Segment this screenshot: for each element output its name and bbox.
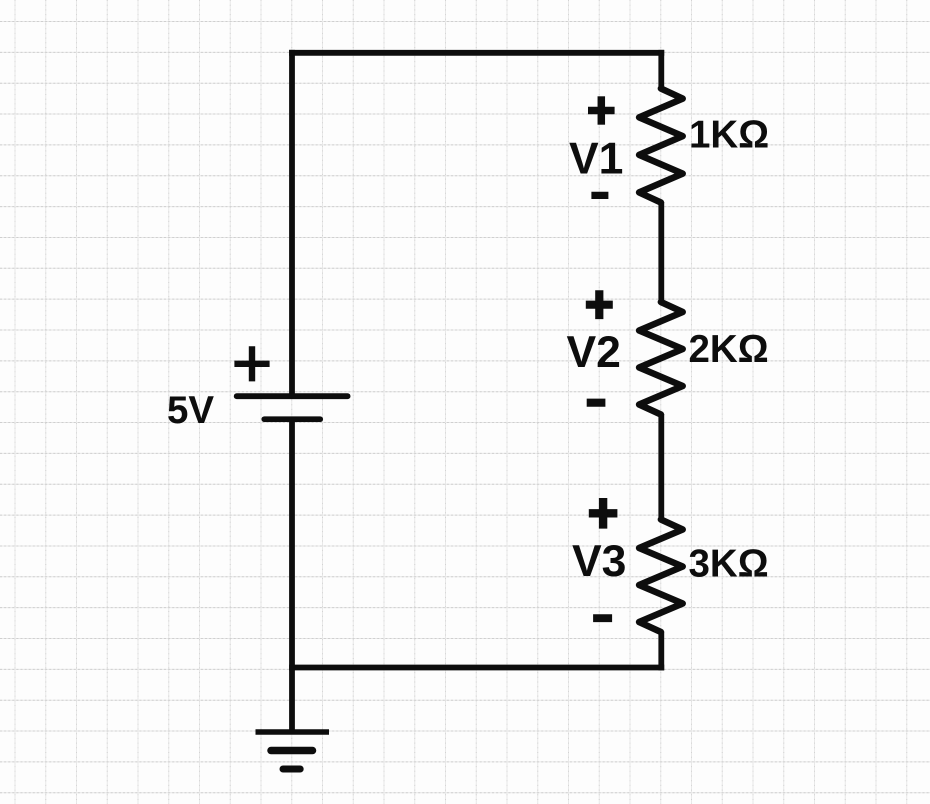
resistor R3 (3KΩ) zigzag <box>639 520 683 633</box>
wire: bottom rail <box>289 665 664 671</box>
ground symbol: top bar <box>256 729 330 734</box>
battery BT1 (5V): short negative plate <box>264 416 320 422</box>
wire: R1 to R2 <box>658 202 664 303</box>
svg-text:5V: 5V <box>167 389 214 432</box>
wire: right vertical (top rail to R1) <box>658 50 664 89</box>
R2 polarity - mark <box>587 399 606 407</box>
svg-text:V1: V1 <box>569 135 623 184</box>
R3 polarity + mark <box>589 498 618 529</box>
wire: R2 to R3 <box>658 414 664 520</box>
ground symbol: middle bar <box>271 747 313 755</box>
ground symbol: bottom bar <box>283 766 300 773</box>
wire: ground stub <box>289 668 295 732</box>
wire: battery - terminal to bottom rail <box>289 419 295 667</box>
wire: R3 to bottom rail <box>658 632 664 671</box>
svg-text:1KΩ: 1KΩ <box>689 113 769 156</box>
svg-text:2KΩ: 2KΩ <box>689 328 769 371</box>
wire: top rail <box>289 50 664 56</box>
svg-text:V2: V2 <box>567 328 621 377</box>
svg-text:3KΩ: 3KΩ <box>689 543 769 586</box>
resistor R1 (1KΩ) zigzag <box>639 89 683 203</box>
wire: left vertical (battery + terminal up to top rail) <box>289 50 295 394</box>
R3 polarity - mark <box>593 614 612 622</box>
R1 polarity - mark <box>591 192 608 199</box>
battery BT1 (5V): long positive plate <box>237 393 348 399</box>
R1 polarity + mark <box>588 96 615 124</box>
resistor R2 (2KΩ) zigzag <box>639 302 683 415</box>
svg-text:V3: V3 <box>572 537 626 586</box>
battery BT1 polarity + mark <box>234 346 269 381</box>
R2 polarity + mark <box>586 290 613 319</box>
